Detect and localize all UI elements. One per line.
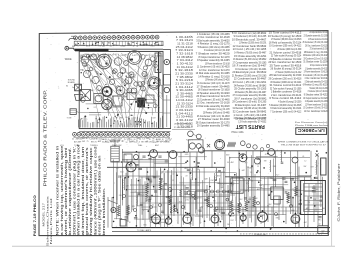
svg-text:TUNING: TUNING xyxy=(90,145,98,147)
resistor zigzags xyxy=(230,200,233,212)
svg-text:12: 12 xyxy=(172,180,174,182)
svg-text:IF: IF xyxy=(103,99,104,101)
tube circle large 1 xyxy=(97,54,112,69)
heavy chassis edge bar xyxy=(75,49,109,52)
svg-text:SW: SW xyxy=(276,214,279,216)
svg-text:8: 8 xyxy=(138,81,139,83)
page label PAGE 7-19 PHILCO xyxy=(32,195,37,236)
tone control boxes xyxy=(70,109,76,115)
svg-text:12: 12 xyxy=(194,166,196,168)
svg-text:K-49: K-49 xyxy=(125,220,129,222)
pickup coil detail xyxy=(188,131,194,137)
frame border of schematic page xyxy=(39,31,328,236)
IF frequency box xyxy=(296,128,327,135)
svg-text:7-3: 7-3 xyxy=(142,139,145,141)
tube U8 xyxy=(292,157,298,163)
heavy vertical wire xyxy=(158,52,160,129)
trimmer X xyxy=(207,144,210,147)
converter transformer box xyxy=(188,140,203,152)
svg-text:K-49: K-49 xyxy=(315,189,319,191)
svg-text:42: 42 xyxy=(319,223,321,225)
svg-text:42: 42 xyxy=(72,139,74,141)
svg-text:PHILCO RADIO & TELEV. CORP.: PHILCO RADIO & TELEV. CORP. xyxy=(42,90,47,187)
svg-text:240: 240 xyxy=(119,195,122,197)
svg-text:31: 31 xyxy=(229,157,231,159)
svg-text:ANT: ANT xyxy=(185,167,188,170)
svg-text:1 30-4132: 1 30-4132 xyxy=(177,61,194,65)
IF transformer 1 xyxy=(231,178,243,193)
svg-text:K2: K2 xyxy=(246,183,248,185)
svg-text:78: 78 xyxy=(82,70,84,72)
svg-text:2MF: 2MF xyxy=(273,166,276,168)
svg-text:41-2: 41-2 xyxy=(128,73,131,75)
svg-text:7-3: 7-3 xyxy=(128,167,131,169)
svg-text:7-3: 7-3 xyxy=(312,180,315,182)
svg-text:IF: IF xyxy=(129,222,131,224)
svg-text:7-3: 7-3 xyxy=(89,45,92,47)
svg-text:51M: 51M xyxy=(313,199,317,201)
svg-text:11 30-4465: 11 30-4465 xyxy=(175,95,193,99)
svg-text:12: 12 xyxy=(292,189,294,191)
note paragraph (rotated) xyxy=(56,145,60,235)
svg-text:41-2: 41-2 xyxy=(220,184,223,186)
svg-text:75: 75 xyxy=(110,46,112,48)
terminal mid line xyxy=(79,111,163,113)
svg-text:6A7: 6A7 xyxy=(259,184,262,187)
svg-text:SW: SW xyxy=(255,198,258,200)
svg-text:2MF: 2MF xyxy=(249,168,252,170)
box with circle xyxy=(94,94,103,104)
svg-text:SW: SW xyxy=(304,166,307,168)
pointer lines fan xyxy=(79,55,117,94)
svg-text:.09: .09 xyxy=(273,157,275,159)
svg-text:SW: SW xyxy=(132,206,135,208)
junction dots xyxy=(148,210,150,212)
svg-text:2MF: 2MF xyxy=(244,191,247,193)
svg-text:37: 37 xyxy=(321,229,325,233)
svg-text:TONE: TONE xyxy=(67,118,73,120)
svg-text:8: 8 xyxy=(141,141,142,143)
svg-text:37-116 CODE 121: 37-116 CODE 121 xyxy=(174,127,191,129)
svg-text:84: 84 xyxy=(66,86,68,88)
svg-text:7-3: 7-3 xyxy=(98,45,101,47)
mid horizontal runs xyxy=(128,189,210,191)
bottom bus 2 xyxy=(112,230,330,232)
coils vertical xyxy=(123,178,126,190)
svg-text:6A7: 6A7 xyxy=(126,185,129,188)
capacitors xyxy=(296,221,299,223)
svg-text:7-3: 7-3 xyxy=(152,140,155,142)
spkr plug box xyxy=(318,226,328,234)
svg-text:31: 31 xyxy=(136,140,138,142)
wire top horizontal xyxy=(122,151,188,153)
left bottom section xyxy=(111,207,116,212)
mid cluster extras xyxy=(140,203,143,205)
svg-text:TO DIAL LAMPS: TO DIAL LAMPS xyxy=(137,229,152,232)
svg-text:75: 75 xyxy=(308,202,310,204)
svg-text:30-4: 30-4 xyxy=(125,117,128,119)
grid caps xyxy=(150,206,153,209)
svg-text:©John F. Rider, Publisher: ©John F. Rider, Publisher xyxy=(337,162,341,221)
chassis bottom edges xyxy=(79,128,170,130)
converging pointer lines xyxy=(88,54,120,128)
svg-text:8: 8 xyxy=(100,93,101,95)
coil can small xyxy=(145,59,152,66)
svg-text:PARTS LIST: PARTS LIST xyxy=(235,123,265,129)
svg-text:51M: 51M xyxy=(248,199,252,201)
svg-text:12: 12 xyxy=(85,73,87,75)
hanging components under top wire xyxy=(124,154,132,162)
svg-text:6A7: 6A7 xyxy=(161,170,164,173)
svg-text:SW: SW xyxy=(82,141,85,143)
svg-text:2MF: 2MF xyxy=(111,212,114,214)
svg-text:.09: .09 xyxy=(197,169,199,171)
terminal circles bottom row xyxy=(73,132,77,136)
vertical wires xyxy=(121,149,123,200)
svg-text:42: 42 xyxy=(172,174,174,176)
svg-text:240: 240 xyxy=(227,224,230,226)
scan speckle xyxy=(132,61,135,64)
chassis dashed line xyxy=(240,233,322,235)
lower tube row xyxy=(152,215,161,224)
tall can xyxy=(155,53,161,73)
svg-text:I.F.=260KC: I.F.=260KC xyxy=(298,128,325,133)
chassis right extension xyxy=(170,50,172,130)
svg-text:YELLOW IS AT BOTTOM PHOTO 37: YELLOW IS AT BOTTOM PHOTO 37 xyxy=(281,143,327,146)
svg-text:30-4: 30-4 xyxy=(99,66,102,68)
svg-text:75: 75 xyxy=(95,141,97,143)
svg-text:31: 31 xyxy=(257,166,259,168)
svg-text:PAGE 7-19 PHILCO: PAGE 7-19 PHILCO xyxy=(32,195,37,236)
svg-text:SW: SW xyxy=(119,219,122,221)
svg-text:31: 31 xyxy=(260,223,262,225)
svg-text:75: 75 xyxy=(98,96,100,98)
tube U7 xyxy=(268,149,275,156)
svg-text:Philco 116A: Philco 116A xyxy=(231,131,244,134)
svg-text:K2: K2 xyxy=(161,45,163,47)
svg-text:12: 12 xyxy=(304,160,306,162)
svg-text:ANT: ANT xyxy=(226,154,229,157)
tube circle large 2 xyxy=(128,51,142,65)
svg-text:DET: DET xyxy=(255,202,258,204)
svg-text:IF: IF xyxy=(197,198,199,200)
svg-text:2MF: 2MF xyxy=(85,65,88,67)
tube circle 3 xyxy=(148,77,160,89)
svg-text:7-3: 7-3 xyxy=(127,140,130,142)
trimmer X right xyxy=(315,153,318,156)
page edge shadow right xyxy=(331,32,333,246)
terminal ticks xyxy=(77,120,79,128)
svg-text:7 Condenser (250 mmf.) 04-411: 7 Condenser (250 mmf.) 04-4112 xyxy=(270,109,301,113)
model title line 2 xyxy=(45,195,49,246)
osc coil xyxy=(228,142,236,147)
svg-text:K-49: K-49 xyxy=(92,56,95,58)
interior circles xyxy=(81,56,89,64)
svg-text:BOARD: BOARD xyxy=(68,81,76,84)
manufacturer name xyxy=(42,90,47,187)
svg-text:6A7: 6A7 xyxy=(242,169,245,172)
svg-text:2MF: 2MF xyxy=(231,215,234,217)
svg-text:IF: IF xyxy=(245,163,247,165)
svg-text:tenna installation.: tenna installation. xyxy=(102,187,106,235)
svg-text:K2: K2 xyxy=(136,54,138,56)
wire mid horizontal xyxy=(107,166,225,168)
tube U5 xyxy=(239,154,247,162)
svg-text:ANT: ANT xyxy=(217,174,220,177)
tube U2 xyxy=(150,150,158,158)
spoked circle dial drive xyxy=(102,99,112,109)
svg-text:.09: .09 xyxy=(302,156,304,158)
callout dots xyxy=(103,57,105,59)
model title MODEL 217 xyxy=(42,203,46,227)
svg-text:LEGEND ON DWG: LEGEND ON DWG xyxy=(174,124,192,126)
svg-text:7-3: 7-3 xyxy=(106,61,108,63)
dark circle xyxy=(102,87,112,97)
tube converter xyxy=(215,140,225,150)
svg-text:SW: SW xyxy=(82,45,85,47)
sound box xyxy=(75,84,82,91)
svg-text:31: 31 xyxy=(316,166,318,168)
svg-text:240: 240 xyxy=(268,214,271,216)
svg-text:For Reverse Conn(s).: For Reverse Conn(s). xyxy=(295,121,329,124)
left-half extra verticals xyxy=(116,172,118,219)
tall component right edge xyxy=(321,158,326,175)
svg-text:DET: DET xyxy=(231,184,234,186)
tube U3 xyxy=(169,151,177,159)
svg-text:6A7: 6A7 xyxy=(113,44,116,47)
svg-text:42: 42 xyxy=(123,46,125,48)
more interior circles xyxy=(141,81,145,85)
svg-text:8-14: 8-14 xyxy=(127,208,130,210)
svg-text:78: 78 xyxy=(164,189,166,191)
underline below circles xyxy=(74,136,171,138)
svg-text:42: 42 xyxy=(117,142,119,144)
dark component xyxy=(137,98,145,108)
tube U1 xyxy=(126,162,136,172)
IF transformer 2 xyxy=(271,187,283,200)
svg-text:8: 8 xyxy=(190,199,191,201)
svg-text:8: 8 xyxy=(260,172,261,174)
svg-text:12: 12 xyxy=(122,141,124,143)
svg-text:29 Speaker assembly 30-4465: 29 Speaker assembly 30-4465 xyxy=(197,124,230,128)
tube U4 xyxy=(199,147,205,153)
svg-text:75: 75 xyxy=(134,191,136,193)
mid horizontal 2 xyxy=(122,159,168,161)
svg-text:DET: DET xyxy=(231,220,234,222)
svg-text:12: 12 xyxy=(133,46,135,48)
antenna coil xyxy=(111,146,119,162)
svg-text:K2: K2 xyxy=(102,46,104,48)
wire runs interior xyxy=(107,78,123,80)
svg-text:8-14: 8-14 xyxy=(161,181,164,183)
svg-text:K2: K2 xyxy=(289,172,291,174)
svg-text:SW: SW xyxy=(137,206,140,208)
svg-text:SPKR CONNECTIONS TO OSCILLATOR: SPKR CONNECTIONS TO OSCILLATOR xyxy=(278,140,330,143)
terminal circles top row xyxy=(74,36,78,40)
page edge shadow bottom xyxy=(12,245,335,247)
svg-text:TONE: TONE xyxy=(74,145,80,147)
svg-text:7 32-1618: 7 32-1618 xyxy=(176,51,193,55)
right strip parts xyxy=(164,59,169,64)
svg-text:.09: .09 xyxy=(297,196,299,198)
svg-text:30-4: 30-4 xyxy=(120,172,123,174)
svg-text:41-2: 41-2 xyxy=(140,195,143,197)
svg-text:Photo 116A,see below: Photo 116A,see below xyxy=(295,124,329,127)
svg-text:DET: DET xyxy=(157,95,160,97)
switch contact circles xyxy=(205,190,208,193)
svg-text:IF: IF xyxy=(226,191,228,193)
svg-text:2MF: 2MF xyxy=(220,187,223,189)
svg-text:6A7: 6A7 xyxy=(124,54,127,57)
extra long horizontals xyxy=(230,157,310,159)
svg-text:WAVE: WAVE xyxy=(65,58,72,61)
svg-text:K2: K2 xyxy=(276,175,278,177)
svg-text:21 30-2330: 21 30-2330 xyxy=(175,71,193,75)
svg-text:42: 42 xyxy=(265,154,267,156)
terminal dots xyxy=(110,125,111,126)
svg-text:.09: .09 xyxy=(208,193,210,195)
extra vertical wires xyxy=(113,159,115,208)
svg-text:ANT: ANT xyxy=(322,207,325,210)
svg-text:31: 31 xyxy=(146,141,148,143)
svg-text:K2: K2 xyxy=(141,159,143,161)
dial trapezoid xyxy=(75,95,83,101)
svg-text:7-3: 7-3 xyxy=(250,172,253,174)
svg-text:6A7: 6A7 xyxy=(205,178,208,181)
horizontal stubs xyxy=(184,190,206,192)
svg-text:51M: 51M xyxy=(127,212,131,214)
svg-text:.09: .09 xyxy=(185,176,187,178)
svg-text:75: 75 xyxy=(251,181,253,183)
svg-text:7 33-3124: 7 33-3124 xyxy=(176,38,194,42)
svg-text:IF: IF xyxy=(293,211,295,213)
bottom bus heavy xyxy=(112,227,330,229)
svg-text:13 Knob assembly 27-4552: 13 Knob assembly 27-4552 xyxy=(238,120,266,124)
svg-text:DET: DET xyxy=(311,167,314,169)
box 3 with circle xyxy=(80,90,91,101)
svg-text:8: 8 xyxy=(307,226,308,228)
model title line 3 xyxy=(49,198,53,244)
tube U6 xyxy=(254,158,260,164)
svg-text:SW: SW xyxy=(201,207,204,209)
svg-text:31: 31 xyxy=(152,205,154,207)
svg-text:2MF: 2MF xyxy=(116,168,119,170)
svg-text:75: 75 xyxy=(87,141,89,143)
svg-text:K2: K2 xyxy=(94,107,96,109)
svg-text:21 33-3124: 21 33-3124 xyxy=(175,81,193,85)
rider publisher credit xyxy=(337,162,341,221)
svg-text:SW: SW xyxy=(213,201,216,203)
svg-text:6A7: 6A7 xyxy=(189,222,192,225)
svg-text:DET: DET xyxy=(189,194,192,196)
small can xyxy=(274,196,280,204)
svg-text:31: 31 xyxy=(150,74,152,76)
svg-text:30-4: 30-4 xyxy=(179,202,182,204)
box 2 xyxy=(113,96,122,106)
top band extra circles xyxy=(253,145,257,149)
svg-text:K2: K2 xyxy=(106,45,108,47)
svg-text:31: 31 xyxy=(186,215,188,217)
svg-text:240: 240 xyxy=(295,192,298,194)
svg-text:3 30-4132: 3 30-4132 xyxy=(176,118,194,122)
wave trap arm xyxy=(74,49,76,51)
svg-text:POWER LINE: POWER LINE xyxy=(254,234,267,236)
chassis top double edge xyxy=(109,48,164,50)
svg-text:Notes,Parts List: Notes,Parts List xyxy=(49,198,53,244)
chassis outline xyxy=(79,51,163,128)
svg-text:14 Osc. transformer 31-6120: 14 Osc. transformer 31-6120 xyxy=(304,109,328,113)
terminal cell strip xyxy=(74,41,163,46)
svg-text:21 30-2330: 21 30-2330 xyxy=(176,105,194,109)
svg-text:ANT: ANT xyxy=(306,207,309,210)
svg-text:SW: SW xyxy=(264,160,267,162)
bracket marks top-left xyxy=(70,38,76,40)
power transformer xyxy=(301,181,326,215)
